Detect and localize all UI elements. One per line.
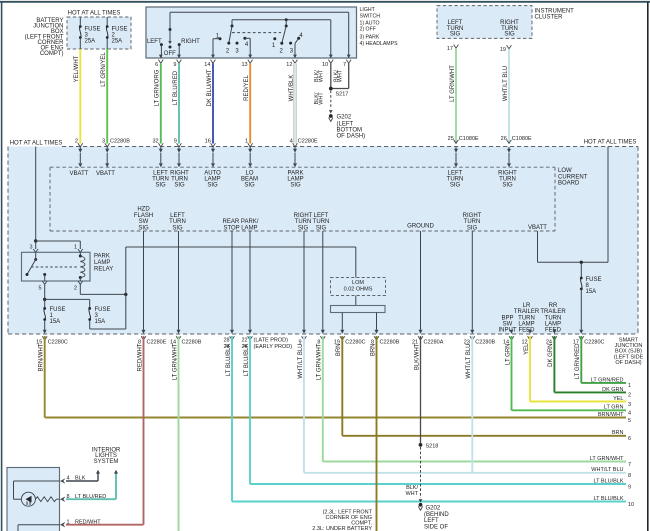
svg-text:C2280E: C2280E: [298, 139, 318, 145]
svg-text:12: 12: [286, 62, 292, 68]
svg-text:RR: RR: [549, 303, 558, 309]
svg-text:17: 17: [447, 46, 453, 52]
svg-text:4: 4: [290, 139, 293, 145]
svg-text:WHT/LT BLU: WHT/LT BLU: [298, 344, 304, 379]
svg-text:BRN/WHT: BRN/WHT: [39, 343, 45, 371]
svg-text:TURN: TURN: [464, 219, 481, 225]
svg-text:BOARD: BOARD: [558, 181, 580, 187]
svg-text:C2280C: C2280C: [584, 339, 604, 345]
svg-text:SIG: SIG: [504, 32, 515, 38]
svg-text:C2280B: C2280B: [110, 139, 130, 145]
svg-text:BPP: BPP: [501, 315, 513, 321]
svg-text:SIG: SIG: [502, 183, 513, 189]
svg-text:RED/WHT: RED/WHT: [137, 343, 143, 371]
svg-text:9: 9: [628, 484, 631, 490]
svg-text:LEFT: LEFT: [147, 39, 162, 45]
svg-text:LT GRN: LT GRN: [604, 405, 624, 411]
svg-text:32: 32: [152, 139, 158, 145]
svg-text:SIG: SIG: [244, 183, 255, 189]
svg-text:3) PARK: 3) PARK: [360, 34, 380, 40]
svg-text:SIG: SIG: [138, 225, 149, 231]
svg-text:LT BLU/BLK: LT BLU/BLK: [593, 478, 623, 484]
svg-text:FEED: FEED: [518, 328, 535, 334]
svg-text:CURRENT: CURRENT: [558, 174, 588, 180]
svg-text:C2280B: C2280B: [182, 339, 202, 345]
svg-text:RIGHT: RIGHT: [463, 213, 482, 219]
svg-text:6: 6: [155, 62, 158, 68]
svg-text:LT GRN/RED: LT GRN/RED: [591, 377, 624, 383]
svg-text:25: 25: [448, 136, 454, 142]
svg-text:LT BLU/BLK: LT BLU/BLK: [244, 344, 250, 377]
svg-text:2: 2: [628, 393, 631, 399]
svg-text:BRN: BRN: [612, 430, 624, 436]
svg-text:LIGHT: LIGHT: [360, 7, 376, 13]
svg-text:SIG: SIG: [450, 183, 461, 189]
svg-text:BRN/WHT: BRN/WHT: [598, 412, 624, 418]
svg-text:SIG: SIG: [316, 225, 327, 231]
svg-text:S217: S217: [336, 91, 349, 97]
svg-text:1: 1: [245, 139, 248, 145]
svg-text:FUSE: FUSE: [95, 307, 111, 313]
svg-text:OF DASH): OF DASH): [615, 360, 641, 366]
svg-text:LT BLU/BLK: LT BLU/BLK: [593, 496, 623, 502]
svg-text:9: 9: [174, 139, 177, 145]
svg-text:HOT AT ALL TIMES: HOT AT ALL TIMES: [68, 10, 121, 16]
svg-text:28: 28: [223, 338, 229, 344]
svg-text:3: 3: [102, 139, 105, 145]
svg-text:LR: LR: [523, 303, 531, 309]
svg-text:SIG: SIG: [298, 225, 309, 231]
svg-text:COMPT): COMPT): [40, 51, 64, 57]
svg-text:BLK/WHT: BLK/WHT: [414, 343, 420, 370]
svg-text:TRAILER: TRAILER: [514, 309, 540, 315]
svg-text:LEFT: LEFT: [170, 213, 185, 219]
svg-text:WHT/BLK: WHT/BLK: [289, 75, 295, 102]
svg-text:(EARLY PROD): (EARLY PROD): [254, 344, 293, 350]
svg-text:BRN: BRN: [370, 344, 376, 357]
svg-text:WHT/LT BLU: WHT/LT BLU: [503, 66, 509, 101]
svg-text:25A: 25A: [85, 38, 96, 44]
svg-text:LT GRN: LT GRN: [505, 344, 511, 365]
svg-text:VBATT: VBATT: [528, 225, 547, 231]
svg-text:GROUND: GROUND: [407, 224, 434, 230]
svg-text:WHT: WHT: [405, 491, 418, 497]
svg-text:22: 22: [241, 338, 247, 344]
svg-text:LT GRN/WHT: LT GRN/WHT: [450, 65, 456, 102]
svg-text:1: 1: [628, 383, 631, 389]
svg-text:FUSE: FUSE: [50, 307, 66, 313]
svg-text:13: 13: [241, 62, 247, 68]
svg-text:INPUT: INPUT: [499, 328, 517, 334]
svg-text:15A: 15A: [95, 319, 106, 325]
svg-text:LEFT: LEFT: [424, 518, 439, 524]
svg-text:OFF: OFF: [164, 51, 176, 57]
svg-text:TURN: TURN: [169, 219, 186, 225]
svg-text:1: 1: [74, 245, 77, 251]
svg-text:DK GRN: DK GRN: [548, 344, 554, 367]
svg-text:RELAY: RELAY: [94, 266, 113, 272]
svg-text:PARK: PARK: [94, 253, 110, 259]
svg-text:26: 26: [501, 136, 507, 142]
svg-text:C1080E: C1080E: [512, 136, 532, 142]
svg-text:TURN: TURN: [545, 315, 562, 321]
svg-text:TRAILER: TRAILER: [540, 309, 566, 315]
svg-text:5: 5: [628, 418, 631, 424]
svg-text:SIG: SIG: [467, 225, 478, 231]
svg-text:LT GRN/WHT: LT GRN/WHT: [172, 343, 178, 380]
svg-text:(LATE PROD): (LATE PROD): [254, 338, 289, 344]
svg-text:WHT: WHT: [338, 69, 344, 82]
svg-text:S218: S218: [426, 443, 439, 449]
svg-text:C1080E: C1080E: [459, 136, 479, 142]
svg-text:SIG: SIG: [450, 32, 461, 38]
svg-text:C2280A: C2280A: [424, 339, 444, 345]
svg-text:(BEHIND: (BEHIND: [424, 512, 449, 518]
svg-text:WHT/LT BLU: WHT/LT BLU: [591, 467, 623, 473]
svg-text:LT BLU/BLK: LT BLU/BLK: [226, 344, 232, 377]
svg-text:HOT AT ALL TIMES: HOT AT ALL TIMES: [584, 140, 637, 146]
svg-text:8: 8: [628, 473, 631, 479]
svg-text:RED/YEL: RED/YEL: [244, 75, 250, 101]
svg-text:SWITCH: SWITCH: [360, 14, 381, 20]
svg-text:VBATT: VBATT: [96, 171, 115, 177]
svg-text:3: 3: [29, 245, 32, 251]
svg-text:G202: G202: [337, 115, 352, 121]
svg-text:10: 10: [628, 502, 634, 508]
svg-text:4: 4: [628, 411, 631, 417]
svg-text:19: 19: [500, 47, 506, 53]
svg-text:DK GRN: DK GRN: [602, 387, 623, 393]
svg-text:SIG: SIG: [290, 183, 301, 189]
svg-text:C2280E: C2280E: [147, 339, 167, 345]
svg-text:2) OFF: 2) OFF: [360, 27, 376, 33]
svg-text:TURN: TURN: [313, 219, 330, 225]
svg-text:25A: 25A: [112, 38, 123, 44]
svg-text:SYSTEM: SYSTEM: [94, 459, 119, 465]
svg-text:10: 10: [322, 62, 328, 68]
svg-text:0.02 OHMS: 0.02 OHMS: [344, 287, 373, 293]
svg-text:SIG: SIG: [172, 225, 183, 231]
svg-text:BRN: BRN: [336, 344, 342, 357]
svg-text:LT GRN/YEL: LT GRN/YEL: [101, 52, 107, 87]
svg-text:YEL: YEL: [613, 396, 623, 402]
svg-text:LT GRN/RED: LT GRN/RED: [575, 343, 581, 379]
svg-text:HZD: HZD: [137, 207, 150, 213]
svg-text:RIGHT: RIGHT: [294, 213, 313, 219]
svg-text:LAMP: LAMP: [94, 260, 110, 266]
svg-text:SIG: SIG: [174, 183, 185, 189]
svg-text:YEL: YEL: [524, 343, 530, 355]
svg-text:LAMP: LAMP: [518, 322, 534, 328]
svg-text:16: 16: [205, 139, 211, 145]
svg-text:REAR PARK/: REAR PARK/: [223, 219, 259, 225]
svg-text:FLASH: FLASH: [134, 213, 153, 219]
svg-text:HOT AT ALL TIMES: HOT AT ALL TIMES: [10, 140, 63, 146]
svg-text:14: 14: [204, 62, 210, 68]
svg-text:7: 7: [343, 62, 346, 68]
svg-text:5: 5: [38, 285, 41, 291]
svg-text:LT GRN/WHT: LT GRN/WHT: [590, 456, 624, 462]
svg-text:TURN: TURN: [295, 219, 312, 225]
svg-text:VBATT: VBATT: [70, 171, 89, 177]
svg-text:LT GRN/WHT: LT GRN/WHT: [317, 343, 323, 380]
svg-text:15A: 15A: [586, 289, 597, 295]
svg-text:4) HEADLAMPS: 4) HEADLAMPS: [360, 41, 399, 47]
svg-text:CLUSTER: CLUSTER: [535, 14, 564, 20]
svg-text:BOTTOM: BOTTOM: [337, 128, 363, 134]
svg-text:LT BLU/RED: LT BLU/RED: [173, 70, 179, 105]
svg-text:WHT/LT BLU: WHT/LT BLU: [466, 344, 472, 379]
svg-text:SW: SW: [139, 219, 149, 225]
svg-text:LT GRN/ORG: LT GRN/ORG: [155, 69, 161, 106]
svg-text:(LEFT: (LEFT: [337, 121, 354, 127]
svg-text:SIDE OF: SIDE OF: [424, 524, 448, 530]
svg-text:SIG: SIG: [207, 183, 218, 189]
svg-text:TURN: TURN: [518, 315, 535, 321]
svg-text:C2280C: C2280C: [48, 339, 68, 345]
svg-text:SIG: SIG: [155, 183, 166, 189]
svg-text:YEL/WHT: YEL/WHT: [74, 55, 80, 82]
svg-text:3: 3: [628, 402, 631, 408]
svg-text:1) AUTO: 1) AUTO: [360, 20, 380, 26]
svg-text:6: 6: [628, 436, 631, 442]
svg-text:WHT: WHT: [319, 69, 325, 82]
svg-text:STOP LAMP: STOP LAMP: [223, 225, 257, 231]
svg-text:WHT: WHT: [319, 92, 325, 105]
svg-text:LOM: LOM: [352, 280, 364, 286]
svg-text:DK BLU/WHT: DK BLU/WHT: [207, 69, 213, 106]
svg-text:C2280C: C2280C: [345, 339, 365, 345]
svg-text:2: 2: [74, 285, 77, 291]
svg-text:C2280B: C2280B: [475, 339, 495, 345]
svg-text:15A: 15A: [50, 319, 61, 325]
svg-text:RIGHT: RIGHT: [181, 39, 200, 45]
svg-text:2: 2: [75, 139, 78, 145]
svg-text:LOW: LOW: [558, 168, 572, 174]
svg-text:LAMP: LAMP: [545, 322, 561, 328]
svg-text:LEFT: LEFT: [314, 213, 329, 219]
svg-text:SW: SW: [503, 322, 513, 328]
svg-text:OF DASH): OF DASH): [337, 134, 366, 140]
svg-text:G202: G202: [426, 505, 441, 511]
svg-text:9: 9: [173, 62, 176, 68]
svg-text:2.3L: UNDER BATTERY: 2.3L: UNDER BATTERY: [312, 526, 372, 531]
svg-text:7: 7: [628, 462, 631, 468]
svg-text:C2280B: C2280B: [380, 339, 400, 345]
